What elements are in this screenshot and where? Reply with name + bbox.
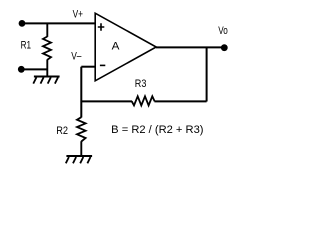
resistor R2 (zigzag) bbox=[77, 117, 86, 141]
svg-text:V+: V+ bbox=[73, 9, 83, 21]
wire feedback node to R3 bbox=[81, 100, 132, 102]
resistor R1 (zigzag) bbox=[43, 37, 51, 60]
wire R2 bottom vertical bbox=[80, 141, 82, 156]
wire junction down to R1 bbox=[46, 23, 48, 37]
svg-text:R2: R2 bbox=[56, 125, 68, 137]
ground symbol G2 bbox=[66, 156, 92, 163]
svg-text:R3: R3 bbox=[135, 78, 147, 90]
wire lower terminal horizontal bbox=[21, 68, 47, 70]
svg-text:V–: V– bbox=[71, 51, 82, 63]
wire feedback node down to R2 bbox=[80, 101, 82, 117]
node output terminal dot Vo bbox=[221, 44, 228, 51]
wire R1 bottom vertical bbox=[46, 59, 48, 76]
wire V- vertical down to feedback node bbox=[80, 67, 82, 102]
wire feedback vertical from output bbox=[206, 47, 208, 101]
wire R3 to feedback vertical bbox=[154, 100, 206, 102]
wire V+ input horizontal bbox=[22, 22, 95, 24]
svg-text:R1: R1 bbox=[21, 40, 31, 52]
op-amp plus sign bbox=[98, 23, 105, 31]
svg-text:Vo: Vo bbox=[218, 25, 228, 37]
wire op-amp output bbox=[156, 46, 224, 48]
svg-text:B = R2 / (R2 + R3): B = R2 / (R2 + R3) bbox=[111, 124, 203, 136]
ground symbol G1 bbox=[33, 77, 59, 84]
wire V- input horizontal bbox=[81, 66, 95, 68]
resistor R3 (zigzag horizontal) bbox=[132, 96, 155, 105]
svg-text:A: A bbox=[112, 41, 120, 53]
op-amp minus sign bbox=[100, 64, 105, 66]
node input terminal dot (top left) bbox=[19, 20, 26, 27]
node ground terminal dot (left) bbox=[18, 66, 25, 73]
op-amp U1 triangle bbox=[95, 13, 156, 81]
